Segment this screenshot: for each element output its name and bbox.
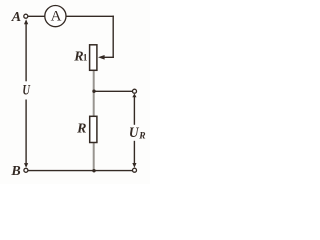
UR arrow upper line [133,97,135,125]
terminal B [24,168,28,172]
wire terminal A to ammeter [28,15,45,17]
svg-text:U: U [129,125,140,141]
rheostat R1 [90,45,97,71]
svg-text:B: B [10,164,20,179]
voltage U arrowhead down [24,163,28,168]
svg-text:R: R [76,122,86,137]
wire ammeter to top-right corner [66,15,114,17]
ammeter [45,6,66,27]
svg-text:1: 1 [83,53,88,63]
svg-text:U: U [22,82,30,98]
voltage U arrowhead up [24,19,28,24]
R1 wiper arrowhead [98,55,105,60]
junction node top [92,90,95,93]
UR top terminal [133,89,137,93]
svg-text:A: A [51,9,62,25]
UR bottom terminal [133,168,137,172]
voltage U upper line [25,24,27,82]
svg-text:R: R [138,131,145,141]
terminal A [24,14,28,18]
resistor R [90,116,97,142]
junction node bottom [92,169,95,172]
wire to R1 wiper [104,56,114,58]
svg-text:A: A [11,10,21,25]
UR arrow bottom arrowhead [132,163,136,168]
bottom wire B to UR bottom terminal [28,170,132,172]
wire R1 through R to bottom (gray) [93,70,95,170]
UR arrow top arrowhead [132,94,136,98]
wire right side down [112,16,114,58]
UR arrow lower line [133,141,135,164]
wire junction to UR top terminal [94,90,132,92]
voltage U lower line [25,100,27,164]
